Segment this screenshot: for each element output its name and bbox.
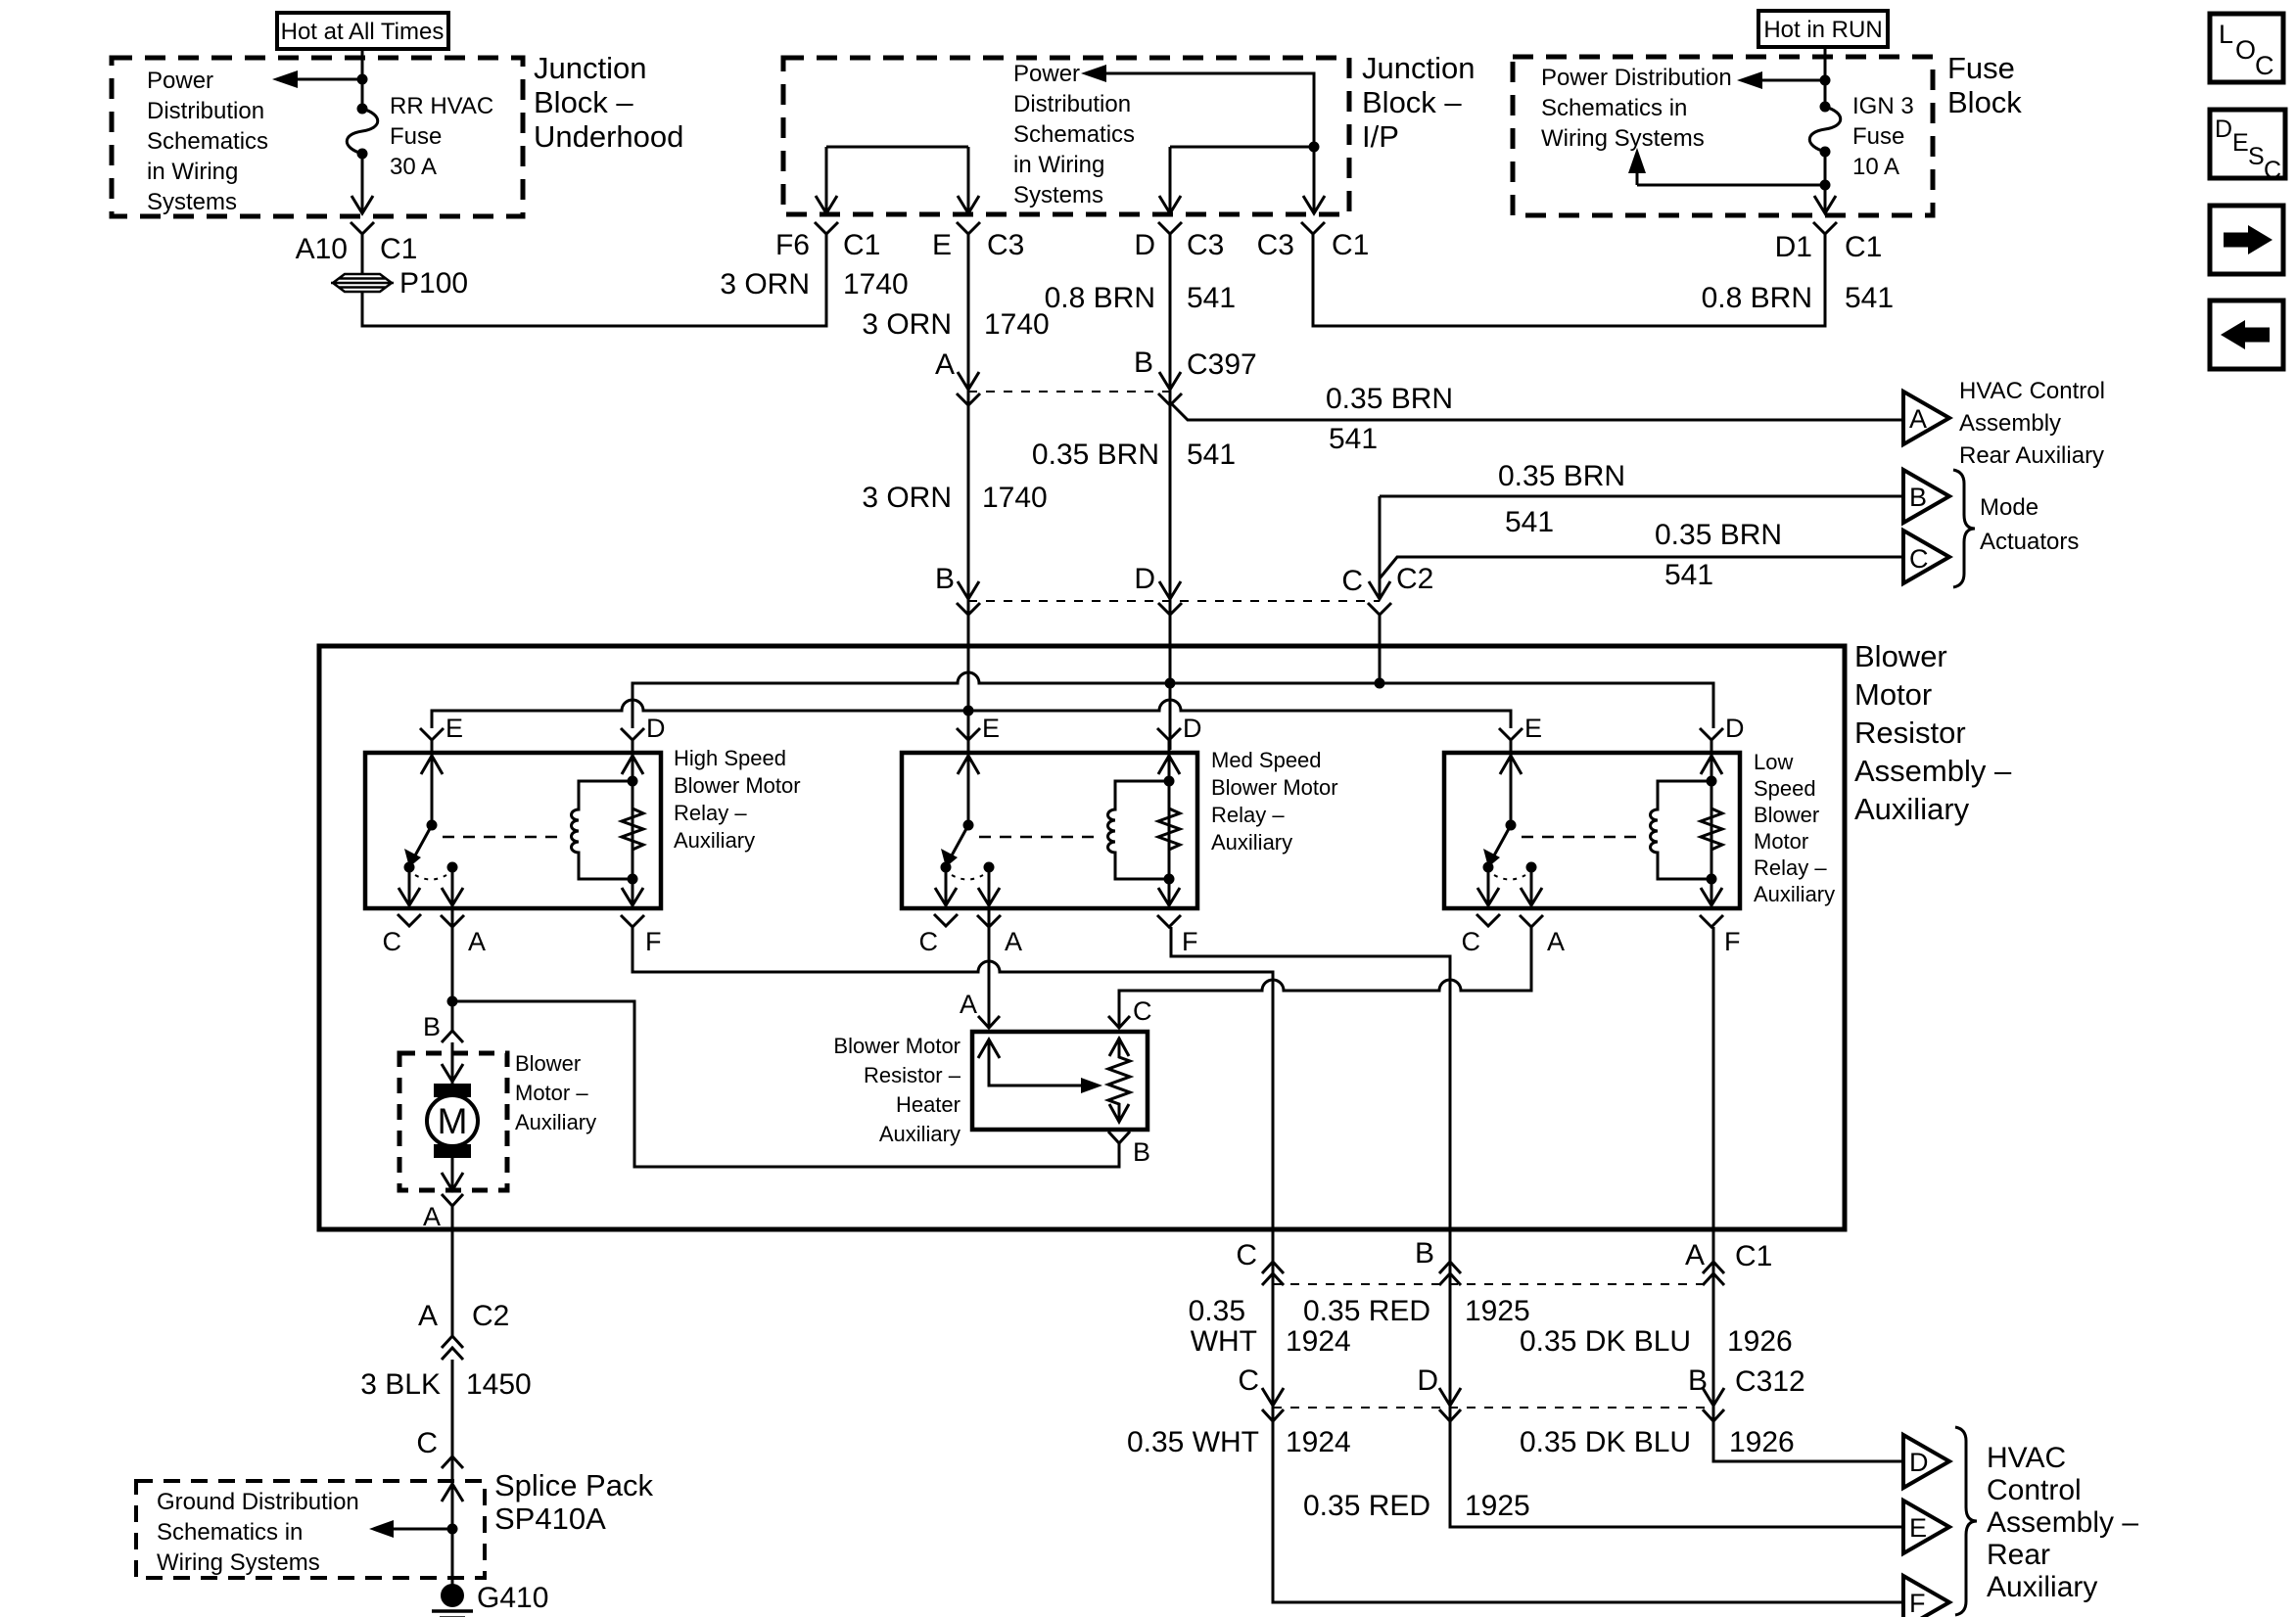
label Mode Actuators — [1980, 494, 2079, 555]
wire C397 to HVAC control A — [1170, 402, 1903, 420]
label Low Speed Blower Motor Relay Auxiliary — [1754, 750, 1835, 906]
svg-text:C: C — [383, 927, 402, 956]
icon DESC box — [2210, 110, 2285, 184]
svg-text:Distribution: Distribution — [147, 98, 264, 124]
svg-text:Blower: Blower — [1754, 803, 1819, 827]
svg-text:Schematics in: Schematics in — [157, 1519, 303, 1546]
svg-text:D: D — [1725, 714, 1745, 743]
blower motor resistor assembly box — [319, 646, 1845, 1229]
svg-text:3 ORN: 3 ORN — [720, 268, 810, 300]
svg-text:Blower Motor: Blower Motor — [1211, 775, 1338, 800]
svg-text:Blower Motor: Blower Motor — [674, 773, 801, 798]
label 0.35 RED 1925 (upper) — [1303, 1295, 1530, 1327]
svg-text:1740: 1740 — [984, 308, 1050, 341]
svg-text:Block: Block — [1947, 85, 2022, 119]
svg-text:L: L — [2219, 20, 2233, 49]
svg-text:C: C — [416, 1427, 438, 1459]
svg-text:Auxiliary: Auxiliary — [1987, 1571, 2097, 1603]
svg-text:C: C — [2264, 157, 2281, 184]
heater resistor internals — [978, 1038, 1130, 1122]
relay low speed blower motor relay auxiliary — [1444, 728, 1740, 927]
svg-text:1740: 1740 — [982, 482, 1048, 514]
svg-text:541: 541 — [1329, 423, 1378, 455]
svg-text:1450: 1450 — [466, 1368, 532, 1401]
svg-text:Power Distribution: Power Distribution — [1541, 65, 1732, 91]
wire F6-E feedthrough inside I/P — [816, 147, 979, 213]
svg-text:3 ORN: 3 ORN — [862, 482, 952, 514]
connector C312 pin D — [1417, 1364, 1461, 1421]
label pins E D C A F (relay 1) — [383, 714, 666, 956]
svg-text:Assembly: Assembly — [1959, 410, 2061, 437]
svg-text:0.35 BRN: 0.35 BRN — [1326, 383, 1453, 415]
note ground distribution schematics — [157, 1489, 359, 1576]
svg-text:3 BLK: 3 BLK — [360, 1368, 441, 1401]
label Med Speed Blower Motor Relay Auxiliary — [1211, 748, 1338, 855]
svg-text:D: D — [2215, 115, 2232, 143]
connector D C3 — [1134, 222, 1224, 261]
svg-text:HVAC Control: HVAC Control — [1959, 378, 2105, 404]
wire relay1 A to motor with branch — [447, 908, 1120, 1167]
svg-text:D1: D1 — [1775, 231, 1812, 263]
svg-text:Block –: Block – — [1362, 85, 1462, 119]
svg-text:1925: 1925 — [1465, 1490, 1530, 1522]
svg-text:I/P: I/P — [1362, 119, 1399, 154]
triangle connector A — [1903, 392, 1949, 444]
svg-text:Junction: Junction — [1362, 51, 1475, 85]
connector A10 C1 — [296, 222, 418, 265]
svg-text:IGN 3: IGN 3 — [1852, 93, 1914, 119]
blower motor resistor heater auxiliary box — [972, 1032, 1148, 1130]
wire motor A down to C2 — [451, 1206, 454, 1336]
svg-text:A: A — [418, 1300, 438, 1332]
connector C2 dashed line — [968, 600, 1380, 602]
svg-text:Low: Low — [1754, 750, 1793, 774]
svg-text:Ground Distribution: Ground Distribution — [157, 1489, 359, 1515]
label HVAC Control Assembly Rear Auxiliary (bottom) — [1987, 1442, 2138, 1603]
svg-text:E: E — [445, 714, 463, 743]
svg-text:Relay –: Relay – — [1211, 803, 1285, 827]
label 0.8 BRN 541 (D) — [1045, 282, 1236, 314]
svg-text:A: A — [1547, 927, 1565, 956]
svg-text:F: F — [1724, 927, 1741, 956]
fuse block dashed box — [1513, 57, 1933, 215]
svg-text:0.35 RED: 0.35 RED — [1303, 1295, 1430, 1327]
splice pack inner arrow — [369, 1484, 463, 1538]
svg-text:P100: P100 — [399, 267, 468, 300]
svg-text:C2: C2 — [472, 1300, 509, 1332]
svg-text:Heater: Heater — [896, 1092, 961, 1117]
label 3 ORN 1740 (E lower) — [862, 482, 1047, 514]
connector D1 C1 — [1775, 222, 1883, 263]
svg-text:Hot at All Times: Hot at All Times — [281, 19, 445, 45]
note power distribution schematics (fuse block) — [1541, 65, 1732, 152]
junction block underhood dashed box — [112, 58, 523, 216]
svg-text:A10: A10 — [296, 233, 348, 265]
label 0.35 DK BLU 1926 (lower) — [1520, 1426, 1795, 1458]
svg-text:Auxiliary: Auxiliary — [515, 1110, 596, 1134]
Hot at All Times box — [277, 13, 448, 49]
junction block I/P dashed box — [783, 58, 1349, 214]
svg-text:E: E — [982, 714, 1000, 743]
connector C1 pin C — [1236, 1229, 1284, 1285]
connector E C3 — [932, 222, 1024, 261]
label 0.8 BRN 541 (D1) — [1702, 282, 1894, 314]
svg-text:Auxiliary: Auxiliary — [1854, 792, 1970, 826]
svg-text:Hot in RUN: Hot in RUN — [1763, 17, 1882, 43]
svg-text:F: F — [1182, 927, 1198, 956]
ground G410 — [432, 1582, 548, 1617]
svg-text:G410: G410 — [477, 1582, 548, 1614]
svg-text:C3: C3 — [987, 229, 1024, 261]
label pins E D C A F (relay 2) — [919, 714, 1202, 956]
svg-text:Schematics: Schematics — [1013, 121, 1135, 148]
svg-text:Assembly –: Assembly – — [1854, 754, 2012, 788]
label High Speed Blower Motor Relay Auxiliary — [674, 746, 801, 853]
svg-text:A: A — [1685, 1239, 1705, 1271]
svg-text:Relay –: Relay – — [1754, 855, 1827, 880]
label IGN 3 Fuse 10 A — [1852, 93, 1914, 180]
svg-text:Blower: Blower — [515, 1051, 581, 1076]
connector C1 dashed line — [1273, 1283, 1713, 1285]
svg-text:D: D — [1134, 563, 1155, 595]
svg-text:B: B — [1909, 483, 1927, 512]
label 3 ORN 1740 (E upper) — [862, 308, 1049, 341]
connector C397 pin B symbols — [1134, 346, 1257, 405]
svg-text:0.8 BRN: 0.8 BRN — [1045, 282, 1155, 314]
triangle connector C — [1903, 531, 1949, 583]
svg-text:Rear: Rear — [1987, 1539, 2050, 1571]
svg-text:Schematics in: Schematics in — [1541, 95, 1687, 121]
svg-text:B: B — [1134, 346, 1153, 379]
svg-text:1926: 1926 — [1729, 1426, 1795, 1458]
connector C splice pack — [416, 1427, 463, 1468]
svg-text:0.35 BRN: 0.35 BRN — [1655, 519, 1782, 551]
svg-text:F6: F6 — [775, 229, 810, 261]
svg-text:Motor: Motor — [1854, 677, 1932, 712]
svg-text:High Speed: High Speed — [674, 746, 786, 770]
blower motor auxiliary dashed box — [399, 1053, 507, 1190]
svg-text:Relay –: Relay – — [674, 801, 747, 825]
svg-text:HVAC: HVAC — [1987, 1442, 2066, 1474]
svg-text:0.8 BRN: 0.8 BRN — [1702, 282, 1812, 314]
svg-text:Auxiliary: Auxiliary — [1754, 882, 1835, 906]
svg-text:C3: C3 — [1257, 229, 1294, 261]
svg-text:Med Speed: Med Speed — [1211, 748, 1322, 772]
note power distribution schematics (underhood) — [147, 68, 268, 215]
svg-text:WHT: WHT — [1191, 1325, 1257, 1358]
wire below fuse with feed branch — [1628, 148, 1836, 213]
label Blower Motor Resistor Heater Auxiliary — [833, 1034, 961, 1146]
wire connector to splice — [361, 243, 364, 274]
wire relay2 F to C1-B — [1171, 927, 1903, 1527]
svg-text:C: C — [1238, 1364, 1259, 1397]
svg-text:Motor: Motor — [1754, 829, 1808, 854]
relay med speed blower motor relay auxiliary — [902, 728, 1197, 927]
triangle connector F — [1903, 1576, 1949, 1617]
svg-text:A: A — [423, 1202, 441, 1231]
svg-text:1926: 1926 — [1727, 1325, 1793, 1358]
svg-text:541: 541 — [1664, 559, 1713, 591]
svg-text:Block –: Block – — [534, 85, 633, 119]
svg-text:in Wiring: in Wiring — [1013, 152, 1104, 178]
wire D bus — [633, 672, 1713, 728]
svg-text:Systems: Systems — [1013, 182, 1103, 208]
fuse IGN 3 10 A — [1809, 102, 1841, 158]
svg-text:S: S — [2248, 143, 2265, 170]
wire C3C1 to fuse block D1C1 — [1313, 234, 1825, 326]
icon right arrow box — [2210, 206, 2283, 274]
node tap — [1820, 75, 1831, 86]
svg-text:C1: C1 — [843, 229, 880, 261]
svg-text:Rear Auxiliary: Rear Auxiliary — [1959, 442, 2104, 469]
svg-text:Auxiliary: Auxiliary — [879, 1122, 961, 1146]
label HVAC Control Assembly Rear Auxiliary — [1959, 378, 2105, 469]
svg-text:Motor –: Motor – — [515, 1081, 588, 1105]
svg-text:D: D — [1417, 1364, 1438, 1397]
connector A C2 — [418, 1300, 509, 1360]
svg-text:1924: 1924 — [1286, 1426, 1351, 1458]
wire C2-C down to D bus — [1379, 615, 1382, 683]
svg-text:A: A — [1909, 404, 1927, 434]
icon LOC box — [2210, 14, 2283, 82]
svg-text:E: E — [932, 229, 952, 261]
connector C2 pin D — [1134, 563, 1182, 615]
splice pack dashed box — [136, 1481, 485, 1578]
svg-text:1925: 1925 — [1465, 1295, 1530, 1327]
svg-text:D: D — [1183, 714, 1202, 743]
svg-text:C2: C2 — [1396, 563, 1433, 595]
connector F6 C1 — [775, 222, 880, 261]
brace HVAC control assembly rear auxiliary — [1955, 1427, 1977, 1615]
svg-text:Speed: Speed — [1754, 776, 1816, 801]
svg-text:541: 541 — [1845, 282, 1894, 314]
wire arrow left to text — [1737, 71, 1825, 89]
svg-text:30 A: 30 A — [390, 154, 437, 180]
svg-text:D: D — [646, 714, 666, 743]
wire relay1 F to C1-C — [633, 927, 1903, 1602]
svg-text:Auxiliary: Auxiliary — [674, 828, 755, 853]
label pins E D C A F (relay 3) — [1462, 714, 1745, 956]
label Fuse Block — [1947, 51, 2022, 119]
label wire 3 ORN 1740 (F6) — [720, 268, 908, 300]
connector B blower motor — [423, 1012, 463, 1042]
svg-text:Assembly –: Assembly – — [1987, 1506, 2138, 1539]
svg-text:M: M — [438, 1101, 468, 1141]
label 0.35 BRN 541 (C) — [1655, 519, 1782, 591]
svg-text:F: F — [645, 927, 662, 956]
svg-text:D: D — [1909, 1448, 1929, 1477]
label 0.35 BRN 541 (B) — [1498, 460, 1625, 538]
svg-text:Blower: Blower — [1854, 639, 1947, 673]
svg-text:10 A: 10 A — [1852, 154, 1899, 180]
wire E bus — [432, 700, 1511, 728]
connector C397 pin A symbols — [935, 348, 980, 405]
svg-text:Underhood: Underhood — [534, 119, 683, 154]
connector C312 pin C — [1238, 1364, 1284, 1421]
svg-text:0.35: 0.35 — [1189, 1295, 1245, 1327]
connector A blower motor — [423, 1194, 463, 1231]
wire D line down — [1169, 234, 1172, 750]
svg-text:541: 541 — [1505, 506, 1554, 538]
connector C3 C1 (right) — [1257, 222, 1370, 261]
svg-text:Power: Power — [1013, 61, 1080, 87]
label Splice Pack SP410A — [494, 1468, 653, 1536]
svg-text:C1: C1 — [1332, 229, 1369, 261]
wire fuse to connector w/ arrow — [351, 154, 373, 213]
connector C1 pin B — [1415, 1229, 1461, 1285]
label RR HVAC Fuse 30 A — [390, 93, 493, 180]
svg-text:Fuse: Fuse — [1947, 51, 2015, 85]
connector C2 pin C — [1341, 563, 1433, 615]
svg-text:Systems: Systems — [147, 189, 237, 215]
svg-text:3 ORN: 3 ORN — [862, 308, 952, 341]
splice P100 — [331, 267, 468, 300]
connector C397 dashed line — [968, 391, 1170, 393]
svg-text:C: C — [1236, 1239, 1257, 1271]
svg-text:0.35 BRN: 0.35 BRN — [1498, 460, 1625, 492]
svg-text:Blower Motor: Blower Motor — [833, 1034, 961, 1058]
svg-text:SP410A: SP410A — [494, 1501, 606, 1536]
blower motor symbol — [427, 1042, 478, 1190]
svg-text:A: A — [468, 927, 486, 956]
connector C heater resistor — [1108, 996, 1152, 1028]
svg-text:Junction: Junction — [534, 51, 646, 85]
svg-text:F: F — [1909, 1589, 1926, 1617]
svg-text:D: D — [1134, 229, 1155, 261]
svg-text:Wiring Systems: Wiring Systems — [157, 1549, 320, 1576]
connector B heater resistor — [1108, 1132, 1150, 1167]
wire relay3 F to C312-B — [1713, 927, 1903, 1461]
svg-text:0.35 BRN: 0.35 BRN — [1032, 439, 1159, 471]
svg-text:Splice Pack: Splice Pack — [494, 1468, 653, 1502]
node hot tap — [357, 74, 368, 85]
wire hot feed down — [361, 49, 364, 109]
svg-text:A: A — [960, 990, 977, 1019]
wire hot in run down — [1824, 47, 1827, 107]
svg-text:C: C — [1909, 544, 1929, 574]
svg-text:E: E — [1524, 714, 1542, 743]
svg-text:0.35 WHT: 0.35 WHT — [1127, 1426, 1259, 1458]
relay high speed blower motor relay auxiliary — [365, 728, 661, 927]
connector C312 dashed line — [1273, 1407, 1713, 1409]
svg-text:RR HVAC: RR HVAC — [390, 93, 493, 119]
wire to mode actuator B — [1380, 495, 1903, 498]
svg-text:C1: C1 — [1735, 1240, 1772, 1272]
connector C1 pin A — [1685, 1229, 1772, 1285]
triangle connector E — [1903, 1501, 1949, 1553]
label 0.35 DK BLU 1926 (upper) — [1520, 1325, 1793, 1358]
svg-text:Power: Power — [147, 68, 213, 94]
label Blower Motor Resistor Assembly Auxiliary — [1854, 639, 2012, 826]
svg-text:A: A — [935, 348, 955, 381]
svg-text:541: 541 — [1187, 439, 1236, 471]
svg-text:0.35 DK BLU: 0.35 DK BLU — [1520, 1325, 1691, 1358]
svg-text:C: C — [919, 927, 939, 956]
svg-text:C1: C1 — [380, 233, 417, 265]
label Junction Block I/P — [1362, 51, 1475, 154]
svg-text:Fuse: Fuse — [390, 123, 442, 150]
wire to splice pack — [451, 1360, 454, 1595]
label 0.35 RED 1925 (lower) — [1303, 1490, 1530, 1522]
svg-text:C397: C397 — [1187, 348, 1257, 381]
svg-text:1740: 1740 — [843, 268, 909, 300]
svg-text:E: E — [2232, 129, 2249, 157]
note power distribution schematics (I/P) — [1013, 61, 1135, 208]
svg-text:Actuators: Actuators — [1980, 529, 2079, 555]
icon left arrow box — [2210, 300, 2283, 369]
label 0.35 BRN 541 (to A) — [1326, 383, 1453, 455]
svg-text:Fuse: Fuse — [1852, 123, 1904, 150]
svg-text:C3: C3 — [1187, 229, 1224, 261]
label 0.35 WHT 1924 (lower) — [1127, 1426, 1351, 1458]
svg-text:C: C — [1341, 565, 1363, 597]
svg-text:A: A — [1005, 927, 1022, 956]
svg-text:C: C — [2255, 51, 2274, 80]
brace mode actuators — [1953, 470, 1975, 587]
svg-text:0.35 RED: 0.35 RED — [1303, 1490, 1430, 1522]
label 0.35 WHT 1924 (upper) — [1189, 1295, 1351, 1358]
Hot in RUN box — [1758, 11, 1888, 47]
fuse RR HVAC 30 A — [347, 104, 378, 160]
svg-text:C1: C1 — [1845, 231, 1882, 263]
wire to mode actuator C — [1380, 557, 1903, 578]
svg-text:B: B — [935, 563, 955, 595]
triangle connector D — [1903, 1435, 1949, 1488]
wire relay3 A to heater resistor C — [1119, 927, 1531, 1028]
svg-text:1924: 1924 — [1286, 1325, 1351, 1358]
svg-text:Schematics: Schematics — [147, 128, 268, 155]
svg-text:C: C — [1462, 927, 1481, 956]
svg-text:Control: Control — [1987, 1474, 2082, 1506]
wire P100 to F6 — [362, 234, 826, 326]
svg-text:Resistor: Resistor — [1854, 716, 1966, 750]
label Blower Motor Auxiliary — [515, 1051, 596, 1134]
svg-text:0.35 DK BLU: 0.35 DK BLU — [1520, 1426, 1691, 1458]
svg-text:B: B — [1133, 1137, 1150, 1167]
label 3 BLK 1450 — [360, 1368, 531, 1401]
connector C312 pin B — [1688, 1364, 1805, 1421]
wire D-C1 feedthrough inside I/P w/ arrow to text — [1081, 65, 1325, 213]
svg-text:Wiring Systems: Wiring Systems — [1541, 125, 1705, 152]
svg-text:Auxiliary: Auxiliary — [1211, 830, 1292, 855]
connector A heater resistor — [960, 990, 1000, 1028]
wire E line down to big box — [967, 234, 970, 750]
label 0.35 BRN 541 (D mid) — [1032, 439, 1236, 471]
connector C2 pin B — [935, 563, 980, 615]
svg-text:B: B — [1688, 1364, 1708, 1397]
svg-text:C: C — [1133, 996, 1152, 1026]
svg-text:E: E — [1909, 1513, 1927, 1543]
wire arrow to power distribution — [272, 70, 362, 88]
label Junction Block Underhood — [534, 51, 683, 154]
svg-text:B: B — [423, 1012, 441, 1041]
svg-text:C312: C312 — [1735, 1365, 1805, 1398]
svg-text:Resistor –: Resistor – — [864, 1063, 961, 1087]
svg-text:Mode: Mode — [1980, 494, 2038, 521]
svg-text:B: B — [1415, 1237, 1434, 1270]
svg-text:541: 541 — [1187, 282, 1236, 314]
svg-text:O: O — [2235, 35, 2256, 65]
wire C2 C vertical — [1379, 496, 1382, 599]
triangle connector B — [1903, 470, 1949, 523]
svg-text:in Wiring: in Wiring — [147, 159, 238, 185]
svg-text:Distribution: Distribution — [1013, 91, 1131, 117]
wire relay2 A to heater resistor A — [988, 908, 991, 1028]
